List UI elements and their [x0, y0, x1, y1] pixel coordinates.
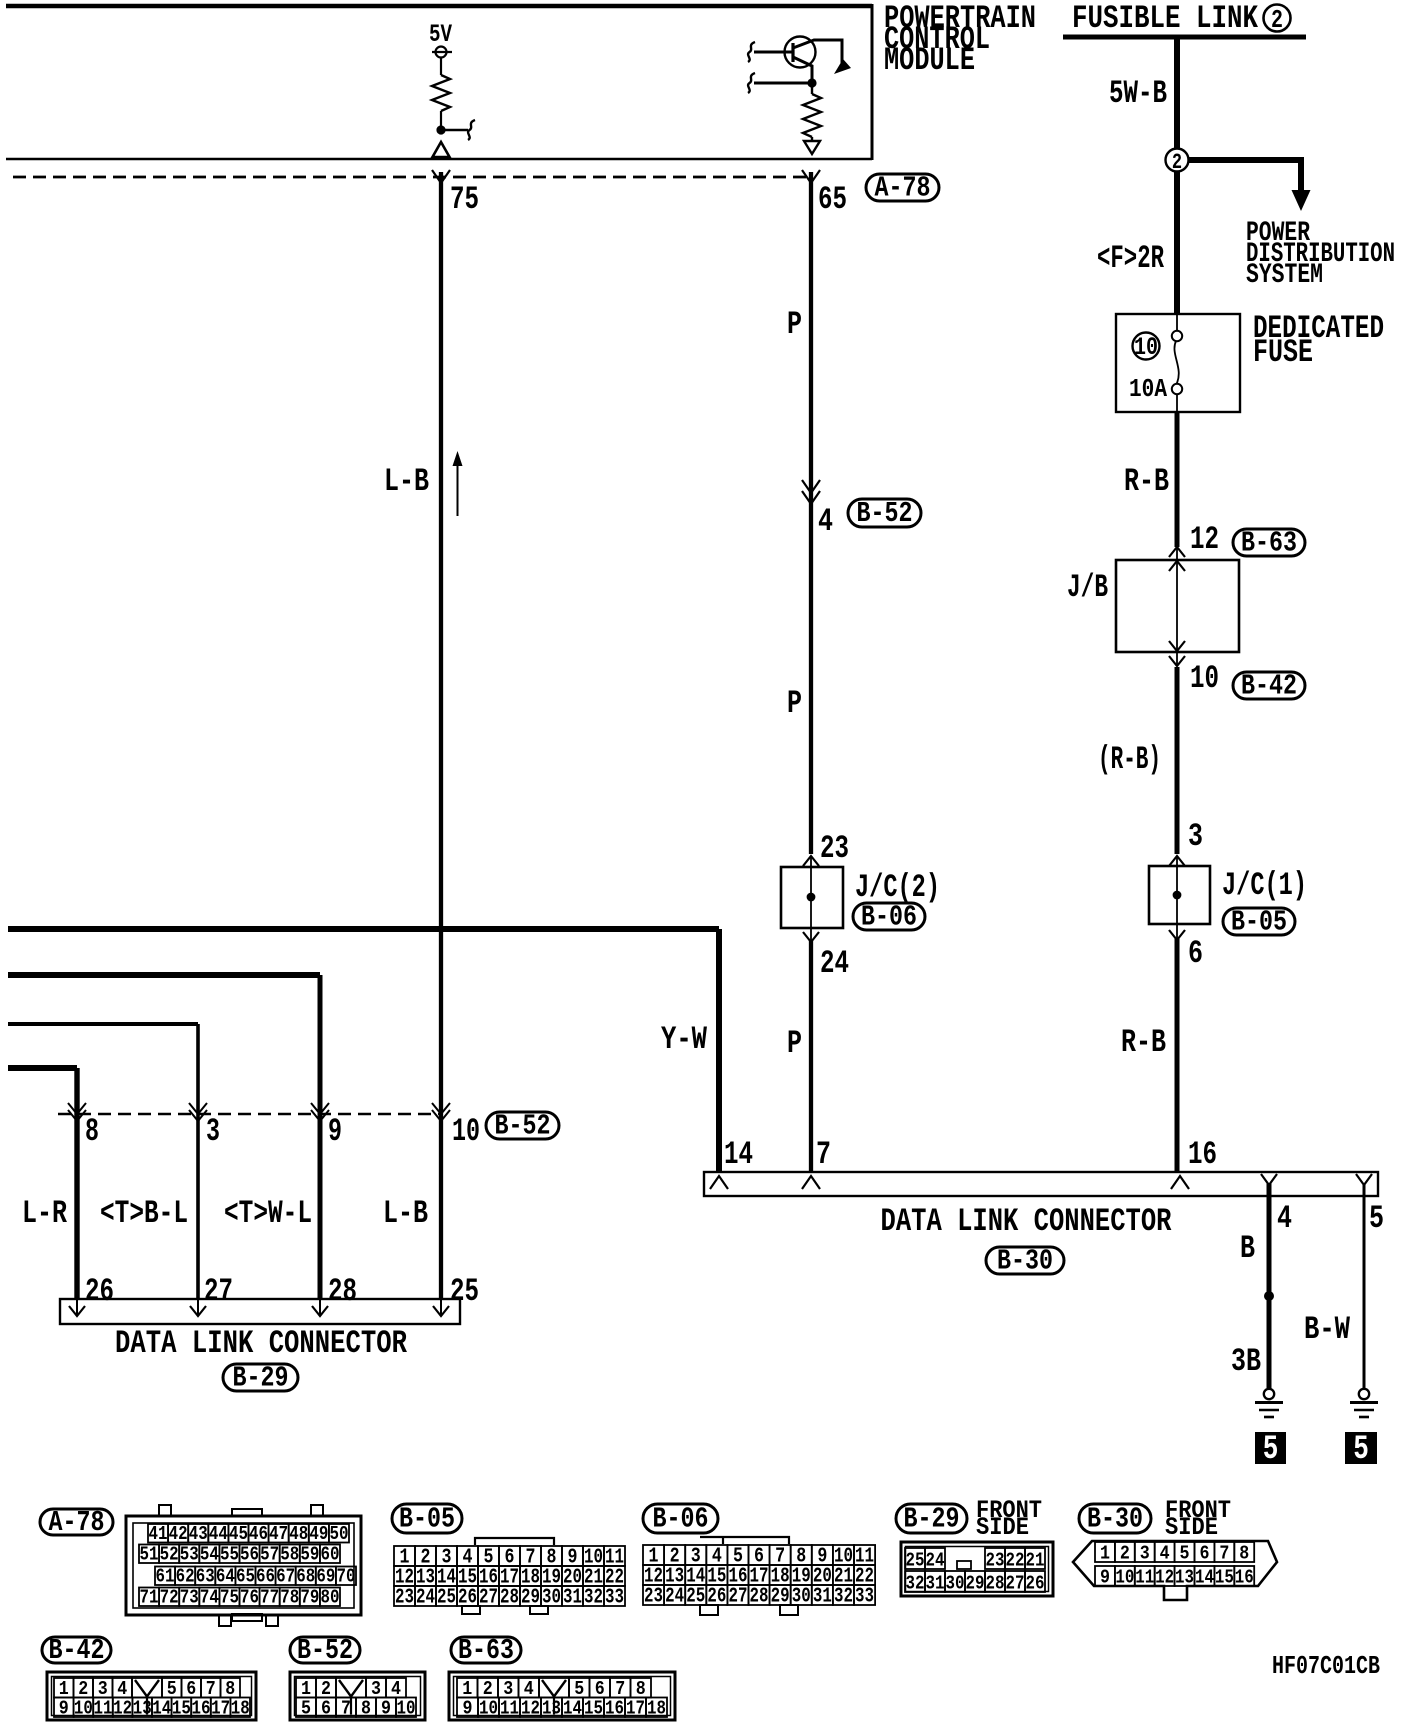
svg-text:33: 33: [605, 1586, 624, 1610]
ground triangle at pin 75: [433, 142, 450, 157]
svg-text:FUSE: FUSE: [1253, 334, 1313, 371]
svg-text:72: 72: [160, 1588, 179, 1609]
B-06 pins 1-11: [643, 1545, 664, 1565]
svg-text:B-06: B-06: [653, 1503, 709, 1536]
svg-text:74: 74: [200, 1588, 219, 1609]
svg-text:9: 9: [59, 1699, 69, 1720]
svg-text:7: 7: [341, 1699, 351, 1720]
wire thin through J/B: [1176, 547, 1178, 666]
svg-text:5V: 5V: [429, 21, 453, 49]
svg-text:P: P: [787, 1025, 802, 1062]
transistor Q1 base lead: [754, 51, 793, 54]
connector ref B-05 bottom: [392, 1504, 462, 1533]
wire B-L horizontal: [8, 1022, 198, 1026]
B-63 pins 1-4: [457, 1678, 478, 1698]
B-52 pins 1-2: [296, 1678, 316, 1698]
svg-text:31: 31: [813, 1585, 832, 1609]
svg-text:5W-B: 5W-B: [1109, 75, 1167, 112]
svg-text:2: 2: [1120, 1544, 1130, 1565]
svg-text:P: P: [787, 306, 802, 343]
svg-text:79: 79: [300, 1588, 319, 1609]
svg-text:28: 28: [328, 1273, 357, 1310]
svg-text:16: 16: [605, 1699, 624, 1720]
svg-text:57: 57: [260, 1545, 279, 1566]
svg-text:44: 44: [209, 1524, 228, 1545]
junction dot J/C(2): [807, 893, 816, 902]
svg-text:10: 10: [1190, 660, 1219, 697]
wire P vertical pin65 to J/C(2): [809, 172, 813, 854]
wire (F)2R vertical: [1174, 171, 1180, 314]
svg-text:B-30: B-30: [1087, 1503, 1143, 1536]
chevron pin4 out: [1261, 1174, 1277, 1185]
connector B-42 housing: [47, 1672, 256, 1720]
wire 5V to resistor: [440, 58, 442, 76]
svg-text:15: 15: [584, 1699, 603, 1720]
svg-text:9: 9: [463, 1699, 473, 1720]
svg-text:27: 27: [204, 1273, 233, 1310]
junction node emitter: [807, 78, 816, 87]
circled 2 fusible link number: [1264, 5, 1291, 32]
svg-text:32: 32: [584, 1586, 603, 1610]
svg-text:17: 17: [626, 1699, 645, 1720]
svg-text:65: 65: [818, 181, 847, 218]
svg-text:69: 69: [316, 1567, 335, 1588]
svg-text:B-52: B-52: [495, 1110, 551, 1143]
svg-text:6: 6: [321, 1699, 331, 1720]
svg-text:B-29: B-29: [904, 1503, 960, 1536]
B-30 pins 9-16: [1095, 1566, 1115, 1586]
svg-text:(R-B): (R-B): [1098, 741, 1161, 778]
svg-text:B-06: B-06: [861, 901, 917, 934]
transistor Q1 body circle: [785, 37, 816, 68]
connector ref B-52 bottom: [290, 1637, 360, 1663]
B-42 keyway: [132, 1678, 162, 1698]
svg-text:68: 68: [296, 1567, 315, 1588]
chevrons at pin 9: [311, 1103, 329, 1114]
svg-text:DATA LINK CONNECTOR: DATA LINK CONNECTOR: [881, 1203, 1173, 1240]
B-29 pins 32-26: [905, 1571, 925, 1592]
svg-text:56: 56: [240, 1545, 259, 1566]
svg-text:9: 9: [381, 1699, 391, 1720]
svg-text:65: 65: [236, 1567, 255, 1588]
svg-text:60: 60: [320, 1545, 339, 1566]
svg-text:<T>W-L: <T>W-L: [224, 1195, 312, 1232]
svg-text:3: 3: [206, 1113, 220, 1150]
B-29 pins 25-24: [905, 1548, 925, 1569]
wire L-R vertical to pin26: [74, 1068, 79, 1300]
svg-text:3B: 3B: [1231, 1343, 1261, 1380]
pin chevron at 75: [432, 170, 450, 183]
B-63 pins 5-8: [569, 1678, 590, 1698]
svg-text:10: 10: [1115, 1568, 1134, 1589]
svg-text:23: 23: [986, 1551, 1005, 1572]
svg-text:13: 13: [542, 1699, 561, 1720]
second lead to node: [754, 82, 812, 85]
svg-text:48: 48: [289, 1524, 308, 1545]
connector ref A-78 bottom: [40, 1509, 113, 1535]
svg-text:5: 5: [1369, 1200, 1384, 1237]
svg-text:SIDE: SIDE: [1165, 1514, 1218, 1542]
svg-text:16: 16: [1235, 1568, 1254, 1589]
svg-text:5: 5: [1180, 1544, 1190, 1565]
svg-text:10: 10: [74, 1699, 93, 1720]
svg-text:61: 61: [156, 1567, 175, 1588]
connector ref B-29: [223, 1364, 298, 1391]
svg-text:32: 32: [834, 1585, 853, 1609]
fuse number circle 10: [1133, 333, 1160, 360]
svg-text:71: 71: [140, 1588, 159, 1609]
A-78 pins 71-80: [139, 1588, 159, 1607]
svg-text:49: 49: [309, 1524, 328, 1545]
svg-text:14: 14: [152, 1699, 171, 1720]
transistor Q1 emitter: [793, 57, 812, 80]
svg-text:7: 7: [1219, 1544, 1229, 1565]
connector B-52 dashed separation line: [58, 1113, 443, 1115]
wire resistor to node: [440, 111, 442, 128]
wire R-B fuse to J/B: [1175, 412, 1180, 547]
B-63 keyway: [539, 1678, 569, 1698]
svg-text:45: 45: [229, 1524, 248, 1545]
resistor R2 emitter: [803, 94, 821, 137]
chevron into J/C(2): [803, 856, 819, 866]
break symbol (internal circuit continues): [468, 120, 475, 140]
svg-text:17: 17: [211, 1699, 230, 1720]
ground G1: [1264, 1389, 1274, 1399]
svg-text:9: 9: [328, 1113, 342, 1150]
svg-text:12: 12: [521, 1699, 540, 1720]
svg-text:MODULE: MODULE: [884, 42, 975, 79]
svg-text:7: 7: [816, 1136, 831, 1173]
inline connector chevrons B-52 pin4: [802, 480, 820, 493]
svg-text:B-52: B-52: [857, 497, 913, 530]
connector ref B-06 inline: [853, 903, 925, 930]
svg-text:13: 13: [133, 1699, 152, 1720]
svg-text:15: 15: [172, 1699, 191, 1720]
svg-text:J/B: J/B: [1067, 569, 1108, 606]
svg-text:23: 23: [820, 830, 849, 867]
transistor Q1 base bar: [791, 43, 794, 62]
svg-text:B-05: B-05: [1231, 906, 1287, 939]
svg-text:3: 3: [1140, 1544, 1150, 1565]
svg-text:A-78: A-78: [875, 172, 931, 205]
svg-text:41: 41: [149, 1524, 168, 1545]
svg-text:R-B: R-B: [1121, 1024, 1166, 1061]
wire R-B to DLC B-30 pin16: [1175, 938, 1180, 1172]
svg-text:8: 8: [361, 1699, 371, 1720]
junction node pin75 internal: [436, 125, 445, 134]
arrow to power distribution: [1292, 190, 1311, 211]
wire 5W-B branch down: [1298, 157, 1304, 192]
svg-text:28: 28: [750, 1585, 769, 1609]
svg-text:12: 12: [1155, 1568, 1174, 1589]
svg-text:4: 4: [1277, 1200, 1292, 1237]
svg-text:B-42: B-42: [1241, 670, 1297, 703]
svg-text:23: 23: [644, 1585, 663, 1609]
B-05 pins 23-33: [394, 1586, 415, 1606]
wire thin through J/C(2): [810, 856, 812, 940]
B-63 pins 9-18: [457, 1698, 478, 1718]
A-78 pins 51-60: [139, 1545, 159, 1564]
svg-text:77: 77: [260, 1588, 279, 1609]
splice circle 2: [1166, 149, 1189, 172]
svg-text:31: 31: [563, 1586, 582, 1610]
module box bottom edge: [6, 158, 872, 160]
pin chevron at 65: [802, 170, 820, 183]
svg-text:A-78: A-78: [49, 1506, 105, 1539]
chevrons at pin 8: [68, 1103, 86, 1114]
connector A-78 pinout housing: [126, 1516, 361, 1615]
svg-text:25: 25: [906, 1551, 925, 1572]
svg-text:24: 24: [820, 945, 849, 982]
connector ref B-06 bottom: [643, 1504, 718, 1533]
fusible link bus bar: [1063, 35, 1306, 40]
svg-text:66: 66: [256, 1567, 275, 1588]
svg-text:55: 55: [220, 1545, 239, 1566]
svg-text:24: 24: [926, 1551, 945, 1572]
svg-text:12: 12: [113, 1699, 132, 1720]
svg-text:25: 25: [450, 1273, 479, 1310]
junction connector J/C(2) box: [781, 867, 843, 928]
connector ref B-29 bottom: [896, 1504, 967, 1533]
svg-text:31: 31: [926, 1574, 945, 1595]
B-06 pins 12-22: [643, 1565, 664, 1585]
connector ref B-30: [986, 1247, 1064, 1274]
svg-text:28: 28: [986, 1574, 1005, 1595]
svg-text:70: 70: [336, 1567, 355, 1588]
B-52 keyway: [336, 1678, 366, 1698]
svg-text:6: 6: [1188, 935, 1203, 972]
svg-text:L-R: L-R: [22, 1195, 68, 1232]
junction dot splice 3B: [1264, 1291, 1274, 1301]
svg-text:73: 73: [180, 1588, 199, 1609]
svg-text:52: 52: [160, 1545, 179, 1566]
svg-text:32: 32: [906, 1574, 925, 1595]
svg-text:28: 28: [500, 1586, 519, 1610]
fuse box outline: [1116, 314, 1240, 412]
svg-text:16: 16: [192, 1699, 211, 1720]
ground G2: [1359, 1389, 1369, 1399]
svg-text:27: 27: [1006, 1574, 1025, 1595]
svg-text:16: 16: [1188, 1136, 1217, 1173]
junction block J/B box: [1116, 560, 1239, 652]
wire B pin4 to ground: [1267, 1183, 1272, 1388]
svg-text:27: 27: [479, 1586, 498, 1610]
svg-text:Y-W: Y-W: [661, 1021, 708, 1058]
B-05 pins 1-11: [394, 1546, 415, 1566]
wire 5W-B vertical: [1174, 39, 1180, 150]
B-30 pins 1-8: [1095, 1542, 1115, 1562]
svg-text:L-B: L-B: [383, 1195, 428, 1232]
svg-text:42: 42: [169, 1524, 188, 1545]
svg-text:B-52: B-52: [297, 1634, 353, 1667]
svg-text:14: 14: [1195, 1568, 1214, 1589]
svg-text:HF07C01CB: HF07C01CB: [1272, 1652, 1380, 1681]
svg-text:<F>2R: <F>2R: [1097, 240, 1164, 277]
A-78 pins 41-50: [148, 1524, 168, 1543]
svg-text:21: 21: [1026, 1551, 1045, 1572]
B-42 pins 1-4: [54, 1678, 74, 1698]
fuse element top circle: [1172, 331, 1182, 341]
svg-text:1: 1: [1100, 1544, 1110, 1565]
svg-text:47: 47: [269, 1524, 288, 1545]
B-42 pins 5-8: [162, 1678, 182, 1698]
B-29 middle tab: [957, 1561, 971, 1569]
svg-text:2: 2: [1271, 6, 1283, 35]
svg-text:J/C(1): J/C(1): [1222, 867, 1307, 904]
connector ref B-52 inline: [848, 499, 921, 527]
5V supply terminal circle: [436, 47, 447, 58]
svg-text:24: 24: [416, 1586, 435, 1610]
chevron pin7: [802, 1176, 820, 1189]
B-05 housing handle: [475, 1538, 554, 1545]
connector ref B-42 bottom: [42, 1637, 111, 1663]
svg-text:R-B: R-B: [1124, 463, 1169, 500]
svg-text:SIDE: SIDE: [976, 1514, 1029, 1542]
wire W-L horizontal: [8, 972, 320, 978]
connector ref B-30 bottom: [1079, 1504, 1151, 1533]
svg-text:B-42: B-42: [49, 1634, 105, 1667]
svg-text:10: 10: [397, 1699, 416, 1720]
wire B-L vertical to pin27: [196, 1024, 200, 1300]
B-06 bottom tabs: [700, 1605, 718, 1615]
svg-text:4: 4: [1160, 1544, 1170, 1565]
connector ref B-52 lower inline: [486, 1112, 559, 1139]
chevrons into J/B pin12: [1169, 547, 1185, 557]
svg-text:23: 23: [395, 1586, 414, 1610]
chevrons out of J/B pin10: [1169, 641, 1185, 651]
wire 5W-B branch horizontal: [1188, 157, 1301, 163]
svg-text:B-63: B-63: [458, 1634, 514, 1667]
resistor R1 pull-up: [432, 75, 450, 111]
connector ref A-78: [866, 174, 939, 201]
svg-text:B-29: B-29: [233, 1362, 289, 1395]
signal direction arrow up: [457, 464, 459, 516]
chevron out of J/C(1): [1169, 930, 1185, 940]
svg-text:62: 62: [176, 1567, 195, 1588]
svg-text:5: 5: [301, 1699, 311, 1720]
break symbol base lead: [748, 42, 755, 62]
wire L-B vertical pin75 to pin25: [439, 172, 443, 1300]
chevron out of J/C(2): [803, 932, 819, 942]
chevron pin26: [76, 1300, 78, 1316]
svg-text:22: 22: [1006, 1551, 1025, 1572]
svg-text:18: 18: [647, 1699, 666, 1720]
svg-text:10: 10: [452, 1113, 480, 1150]
connector ref B-63 inline: [1233, 529, 1305, 556]
connector B-63 housing: [449, 1672, 675, 1720]
svg-text:26: 26: [85, 1273, 114, 1310]
svg-text:75: 75: [220, 1588, 239, 1609]
chevron into J/C(1): [1169, 856, 1185, 866]
svg-text:3: 3: [1188, 818, 1203, 855]
fuse element bottom circle: [1172, 384, 1182, 394]
svg-text:13: 13: [1175, 1568, 1194, 1589]
chevron pin5 out: [1356, 1174, 1372, 1185]
svg-text:9: 9: [1100, 1568, 1110, 1589]
svg-text:14: 14: [724, 1136, 753, 1173]
svg-text:27: 27: [728, 1585, 747, 1609]
wire node to break: [441, 129, 468, 131]
ground ref 5 black square: [1255, 1432, 1286, 1464]
svg-text:B-63: B-63: [1241, 527, 1297, 560]
wire B-W pin5 to ground: [1363, 1183, 1366, 1388]
svg-text:18: 18: [231, 1699, 250, 1720]
connector ref B-63 bottom: [451, 1637, 521, 1663]
svg-text:4: 4: [818, 503, 833, 540]
wire (R-B) J/B to J/C(1): [1175, 667, 1180, 854]
svg-text:P: P: [787, 685, 802, 722]
svg-text:L-B: L-B: [384, 463, 429, 500]
svg-text:FUSIBLE LINK: FUSIBLE LINK: [1072, 0, 1259, 37]
junction connector J/C(1) box: [1149, 866, 1210, 924]
svg-text:25: 25: [437, 1586, 456, 1610]
svg-text:78: 78: [280, 1588, 299, 1609]
wire L-R horizontal: [8, 1065, 77, 1071]
B-52 pins 5-10: [296, 1698, 316, 1718]
connector B-30 box: [704, 1172, 1378, 1196]
ground ref 5 black square right: [1345, 1432, 1377, 1464]
module box right edge: [871, 4, 874, 160]
svg-text:14: 14: [563, 1699, 582, 1720]
fuse element wire bottom: [1176, 394, 1178, 412]
wire Y-W vertical to pin14: [716, 929, 722, 1172]
wire Y-W horizontal: [8, 926, 719, 932]
svg-text:53: 53: [180, 1545, 199, 1566]
svg-text:8: 8: [1239, 1544, 1249, 1565]
svg-text:5: 5: [1353, 1431, 1369, 1469]
svg-text:10: 10: [479, 1699, 498, 1720]
svg-text:15: 15: [1215, 1568, 1234, 1589]
break symbol second lead: [748, 73, 755, 93]
A-78 pins 61-70: [155, 1567, 175, 1586]
B-29 pins 23-21: [985, 1548, 1005, 1569]
svg-text:30: 30: [946, 1574, 965, 1595]
svg-text:B-W: B-W: [1304, 1311, 1351, 1348]
collector arrow head: [834, 59, 851, 74]
svg-text:54: 54: [200, 1545, 219, 1566]
open arrow to pin 65: [804, 137, 820, 154]
svg-text:76: 76: [240, 1588, 259, 1609]
chevron pin25: [440, 1300, 442, 1316]
connector ref B-42 inline: [1233, 672, 1305, 699]
wire node to resistor: [811, 83, 813, 94]
svg-text:64: 64: [216, 1567, 235, 1588]
B-42 pins 9-18: [54, 1698, 74, 1718]
svg-text:58: 58: [280, 1545, 299, 1566]
svg-text:33: 33: [855, 1585, 874, 1609]
svg-text:12: 12: [1190, 521, 1219, 558]
transistor Q1 collector: [793, 40, 842, 63]
svg-text:63: 63: [196, 1567, 215, 1588]
svg-text:10: 10: [1134, 334, 1158, 362]
svg-text:10A: 10A: [1129, 375, 1167, 404]
B-06 pins 23-33: [643, 1585, 664, 1605]
B-52 pins 3-4: [366, 1678, 386, 1698]
fuse element wire top: [1176, 314, 1178, 331]
svg-text:29: 29: [966, 1574, 985, 1595]
chevron pin16: [1171, 1176, 1189, 1189]
connector B-29 box: [60, 1299, 460, 1324]
connector ref B-05 inline: [1223, 908, 1295, 935]
svg-text:11: 11: [1135, 1568, 1154, 1589]
chevron pin28: [319, 1300, 321, 1316]
svg-text:DATA LINK CONNECTOR: DATA LINK CONNECTOR: [115, 1325, 408, 1362]
wire W-L vertical to pin28: [318, 975, 323, 1300]
module box: POWERTRAIN CONTROL MODULE outline top edge: [6, 4, 872, 9]
svg-text:6: 6: [1199, 1544, 1209, 1565]
B-05 pins 12-22: [394, 1566, 415, 1586]
svg-text:B: B: [1240, 1230, 1255, 1267]
